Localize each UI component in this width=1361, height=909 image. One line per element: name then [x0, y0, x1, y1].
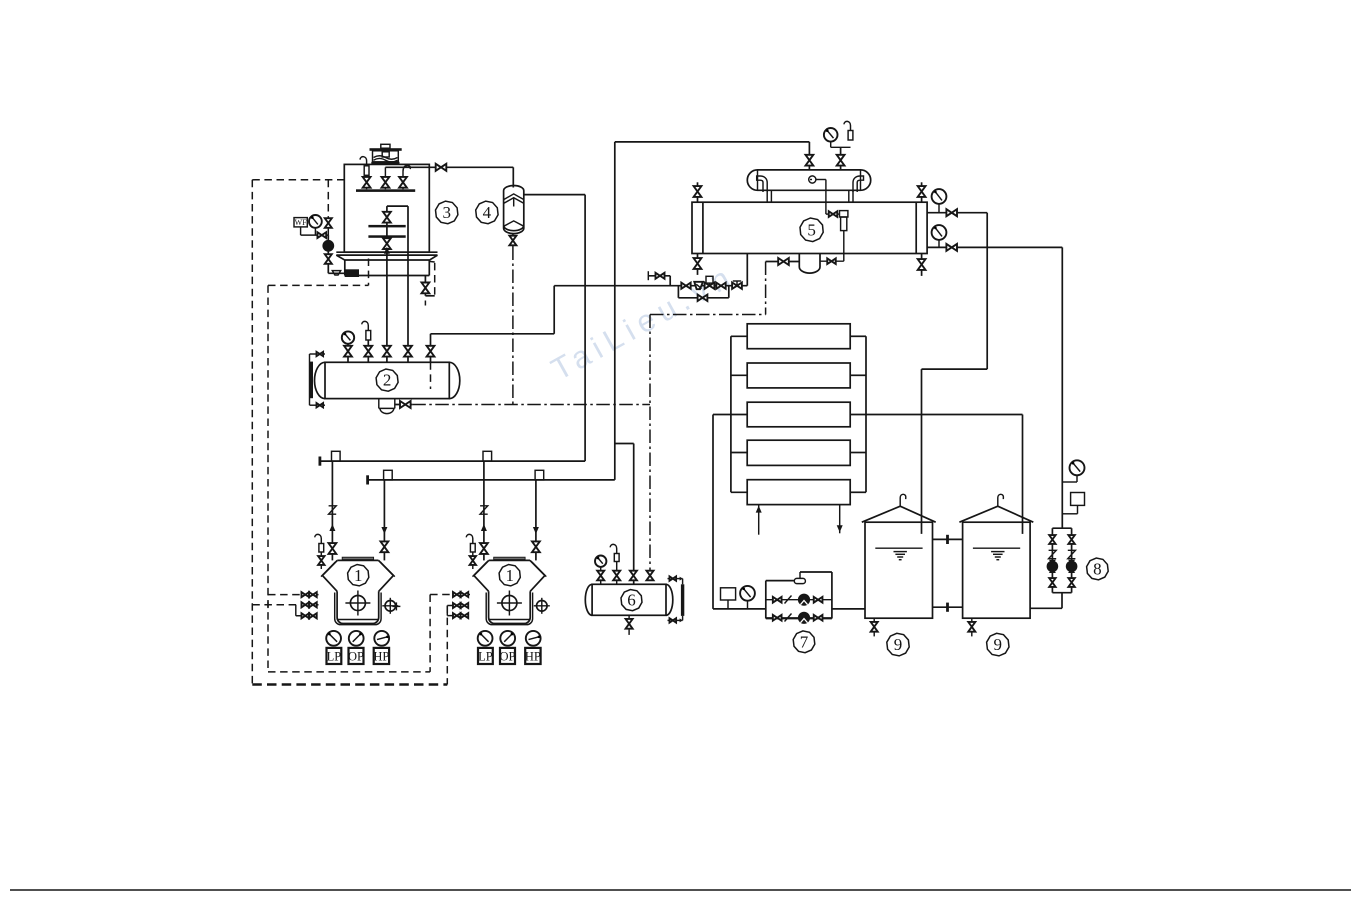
wire oil drain to skirt: [328, 272, 345, 274]
V6 level gauge: [668, 576, 685, 622]
valve condenser inlet: [806, 155, 814, 166]
wire dashed bus1: [252, 180, 447, 685]
label U5: [800, 218, 823, 242]
wire dashed V2 internal dip: [430, 362, 432, 389]
label V2: [376, 369, 398, 391]
svg-text:2: 2: [383, 371, 392, 390]
wire dashed top left: [252, 179, 344, 181]
relief valve V3 nozzle1: [360, 157, 369, 176]
svg-text:8: 8: [1093, 560, 1102, 579]
label T9b: [987, 633, 1009, 656]
comp1 control row3: [296, 605, 319, 619]
oil pump on V3 drain: [323, 235, 334, 273]
label T9a: [887, 633, 909, 656]
valve on WF drop: [325, 218, 332, 228]
svg-text:5: 5: [807, 220, 816, 239]
valve condenser top left: [694, 182, 702, 202]
valve V2 nozzle3: [383, 346, 391, 357]
valve expansion station 2: [716, 283, 725, 289]
wire comp1 discharge drop: [383, 480, 385, 561]
wire expansion station riser to condenser: [746, 254, 748, 286]
valve on vessel3-filter4 line: [436, 164, 447, 171]
svg-text:LP: LP: [327, 649, 342, 663]
condenser right gauge 2: [932, 225, 947, 247]
station8 manifold: [1052, 528, 1071, 608]
valve V3 nozzle1: [363, 175, 371, 189]
gauge station8: [1062, 460, 1084, 482]
wire comp2 suction drop: [483, 461, 485, 560]
wire coil supply west: [713, 415, 747, 609]
V3 bottom flange: [336, 252, 437, 260]
wire discharge branch to vessel6: [615, 444, 634, 585]
wire comp2 discharge drop: [535, 480, 537, 561]
V3 skirt: [345, 260, 430, 276]
wire pump station outlet: [832, 608, 865, 610]
compressor U1 left: [315, 506, 399, 664]
valve V3 internal upper: [383, 212, 391, 223]
valve V3 internal lower: [383, 238, 391, 249]
flow arrow in V3 skirt: [384, 247, 390, 254]
pump row 1: [766, 594, 832, 605]
wire tank interconnect top: [933, 535, 963, 544]
wire discharge riser to condenser: [615, 142, 810, 480]
valve V3 nozzle3: [399, 166, 410, 190]
condenser right gauge 1: [932, 189, 947, 213]
solenoid branch 8b: [1066, 535, 1077, 587]
condenser U5 top cylinder: [747, 170, 870, 190]
svg-text:1: 1: [354, 566, 363, 585]
V3 oil drain loop: [422, 261, 435, 305]
gauge U7: [740, 586, 755, 609]
svg-text:WF: WF: [295, 218, 308, 227]
svg-text:3: 3: [442, 203, 451, 222]
WF level switch box: [294, 218, 328, 236]
hand expansion valve: [732, 281, 742, 289]
label U8: [1087, 558, 1109, 580]
valve filter4 drain: [509, 234, 516, 247]
solenoid branch 8a: [1047, 535, 1058, 587]
valve gauge2 line: [946, 244, 957, 251]
svg-text:9: 9: [894, 635, 903, 654]
nozzle stub comp1 discharge on header: [384, 470, 393, 480]
valve on sump drain: [778, 258, 789, 265]
valve float gauge: [829, 211, 837, 217]
water inlet arrow: [756, 505, 762, 535]
wire dashed WF drop: [327, 180, 329, 235]
thermo well in cylinder: [809, 176, 816, 183]
gauge at V3: [309, 215, 322, 235]
vessel V6 body: [585, 584, 673, 615]
wire dashdot filter4 drain: [512, 247, 514, 405]
wire vessel3 internal left drop to vessel2: [386, 206, 388, 362]
valve V6 drain: [626, 615, 633, 635]
wire filter4 outlet to suction riser: [524, 195, 585, 462]
wire dashed V3 skirt link: [268, 259, 369, 286]
nozzle stub comp1 suction on header: [332, 451, 341, 461]
coil left bus: [731, 336, 747, 492]
tank T9b: [959, 494, 1033, 636]
svg-text:OP: OP: [500, 649, 516, 663]
wire vessel3 internal bracket: [387, 205, 408, 207]
label U3: [436, 201, 458, 224]
V2 bottom nozzle: [379, 399, 395, 414]
valve V6 nozzle3: [630, 571, 637, 581]
wire cylinder to shell right: [849, 176, 864, 202]
nozzle stub comp2 discharge on header: [535, 470, 544, 480]
svg-text:HP: HP: [373, 649, 389, 663]
valve on bypass: [698, 295, 708, 301]
svg-text:4: 4: [483, 203, 492, 222]
valve condenser top right: [918, 182, 926, 202]
svg-text:1: 1: [505, 566, 514, 585]
valve V2 nozzle2: [364, 346, 372, 357]
wire pump station supply: [713, 608, 766, 610]
comp2 control row2: [447, 603, 470, 608]
filter F4 body: [504, 186, 524, 234]
oil heater block: [345, 269, 359, 277]
valve V2 nozzle4: [404, 346, 412, 357]
wire discharge header: [368, 475, 615, 484]
page rule: [10, 889, 1351, 891]
pressure switch station8: [1062, 493, 1084, 514]
vessel V3 body: [344, 164, 429, 252]
wire charging stub: [648, 271, 670, 286]
valve expansion station 1: [681, 283, 690, 289]
wire liquid line to expansion station: [554, 285, 747, 287]
wire sump to float chamber: [820, 260, 844, 262]
pump row 2: [766, 612, 832, 623]
svg-text:9: 9: [994, 635, 1003, 654]
valve on charging stub: [655, 273, 664, 279]
condenser gauge assembly: [824, 121, 853, 170]
wire comp1 suction drop: [331, 461, 333, 560]
wire vessel3 internal right drop to vessel2: [407, 206, 409, 362]
wire dashdot sump drop: [765, 262, 767, 315]
comp1 control row2: [252, 602, 318, 609]
wire V2 drain: [395, 404, 413, 406]
tick mark: [392, 602, 400, 610]
valve condenser bottom left: [694, 254, 702, 275]
wire dashed bus2: [268, 285, 430, 672]
valve condenser bottom right: [918, 254, 926, 276]
pump station U7 box: [766, 572, 832, 619]
condenser U5 shell: [692, 202, 927, 253]
wire tank2 outlet east: [1030, 607, 1062, 609]
wire dashdot vessel2 drain east: [412, 404, 650, 406]
wire suction header: [320, 457, 585, 466]
condenser sump: [799, 254, 820, 274]
vessel V2 body: [315, 362, 460, 398]
water outlet arrow: [837, 505, 843, 534]
wire vessel2 nozzle5 from liquid line: [431, 286, 555, 363]
V3 internal plates: [368, 225, 405, 238]
wire condenser sump drain: [766, 261, 800, 263]
drain funnel: [332, 271, 340, 275]
label U7: [793, 631, 815, 653]
valve V2 nozzle1: [344, 346, 352, 357]
nozzle stub comp2 suction on header: [483, 451, 492, 461]
wire coil return east to tank2: [850, 415, 1022, 534]
wire gauge1 line to tank1: [922, 213, 988, 534]
level switch box U7: [721, 588, 736, 609]
coil right bus: [850, 336, 866, 492]
label U4: [476, 201, 498, 224]
valve V3 nozzle2: [382, 167, 390, 189]
agitator motor on V3: [370, 144, 402, 164]
float chamber: [840, 211, 848, 262]
wire float gauge drop: [816, 180, 840, 215]
wire vessel2 nozzle1 stub: [347, 344, 349, 362]
svg-text:OP: OP: [348, 649, 364, 663]
valve V2 drain: [400, 401, 411, 408]
V2 level gauge: [310, 352, 326, 408]
valve V6 nozzle4: [646, 571, 653, 581]
wire cylinder to shell left: [757, 176, 772, 202]
evaporator coil plates: [747, 324, 850, 505]
wire expansion bypass: [678, 286, 728, 298]
comp1 control row1: [268, 592, 319, 597]
svg-text:HP: HP: [525, 649, 541, 663]
relief V6: [610, 544, 620, 584]
svg-text:7: 7: [800, 632, 809, 651]
svg-text:6: 6: [627, 591, 636, 610]
valve gauge1 line: [946, 209, 957, 216]
valve sump east: [827, 258, 835, 264]
compressor U1 right: [466, 506, 550, 664]
wire dashdot cross to condenser sump: [650, 314, 766, 316]
V3 spray header bar: [356, 189, 415, 192]
wire dashdot main riser to vessel6: [649, 315, 651, 585]
wire tank interconnect bottom: [933, 603, 963, 612]
solenoid valve on liquid line: [705, 276, 715, 289]
svg-text:LP: LP: [478, 649, 493, 663]
comp2 control row3: [447, 606, 470, 619]
comp2 control row1: [430, 592, 470, 597]
wire gauge2 line to station8: [927, 247, 1062, 528]
tank T9a: [862, 494, 936, 636]
strainer on liquid line: [694, 282, 703, 289]
valve V2 nozzle5: [427, 346, 435, 357]
gauge V6: [595, 556, 606, 585]
relief at V2 nozzle2: [362, 321, 371, 340]
valve WF line: [317, 232, 326, 238]
gauge at V2 nozzle1: [342, 331, 354, 343]
wire vessel3 to filter4: [385, 167, 513, 187]
wire vessel2 nozzle2 stub: [367, 340, 369, 362]
label V6: [621, 590, 642, 611]
